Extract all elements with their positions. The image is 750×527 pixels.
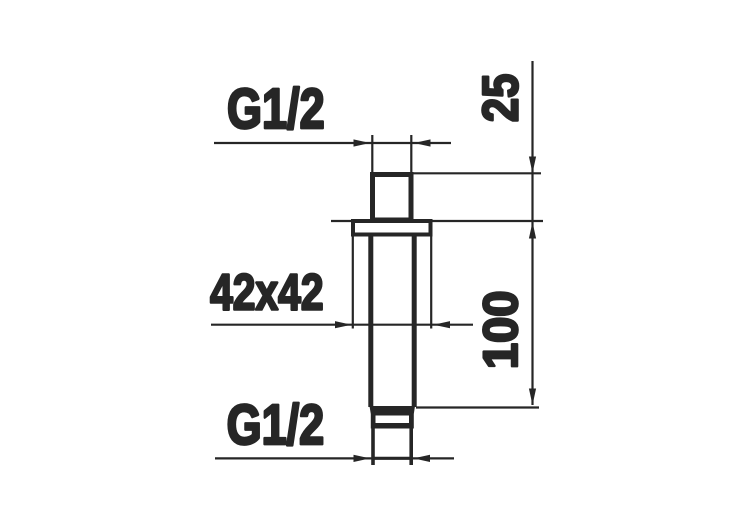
svg-text:25: 25 xyxy=(473,74,528,122)
vertical dim line lower segment (100) xyxy=(531,222,533,405)
extension line stub top right xyxy=(413,172,541,174)
extension line stub left xyxy=(371,135,373,172)
svg-text:100: 100 xyxy=(474,291,528,370)
nut groove xyxy=(376,416,410,424)
bottom nut block xyxy=(370,406,416,429)
extension line flange right xyxy=(430,236,432,329)
arrow right at stub left xyxy=(354,139,371,146)
extension line flange left xyxy=(352,236,354,329)
arrow up tip at ceiling level xyxy=(529,222,536,239)
dim line 42x42 xyxy=(211,324,473,326)
arrow down tip at stub-top level xyxy=(529,157,536,174)
arrow left at bottom stub right xyxy=(414,455,431,462)
arrow left at flange right xyxy=(434,321,451,328)
extension line pipe bottom right xyxy=(416,406,539,408)
dim line bottom G1/2 xyxy=(215,457,454,459)
svg-text:G1/2: G1/2 xyxy=(227,393,325,456)
bottom threaded stub left wall xyxy=(371,429,375,466)
pipe right wall xyxy=(412,237,417,408)
square flange 42x42 xyxy=(353,221,431,235)
vertical dim line upper segment (25) xyxy=(531,61,533,221)
bottom stub end cap line xyxy=(372,457,412,460)
dim line top G1/2 xyxy=(214,142,451,144)
svg-text:42x42: 42x42 xyxy=(210,263,323,320)
top threaded stub G1/2 xyxy=(373,175,412,221)
bottom threaded stub right wall xyxy=(409,429,413,466)
pipe left wall xyxy=(368,237,373,408)
arrow right at flange left xyxy=(335,321,352,328)
arrow right at bottom stub left xyxy=(354,455,371,462)
svg-text:G1/2: G1/2 xyxy=(227,77,325,140)
extension line stub right xyxy=(410,135,412,172)
arrow down tip at pipe bottom level xyxy=(529,389,536,406)
ceiling reference line xyxy=(331,220,543,222)
arrow left at stub right xyxy=(414,139,431,146)
